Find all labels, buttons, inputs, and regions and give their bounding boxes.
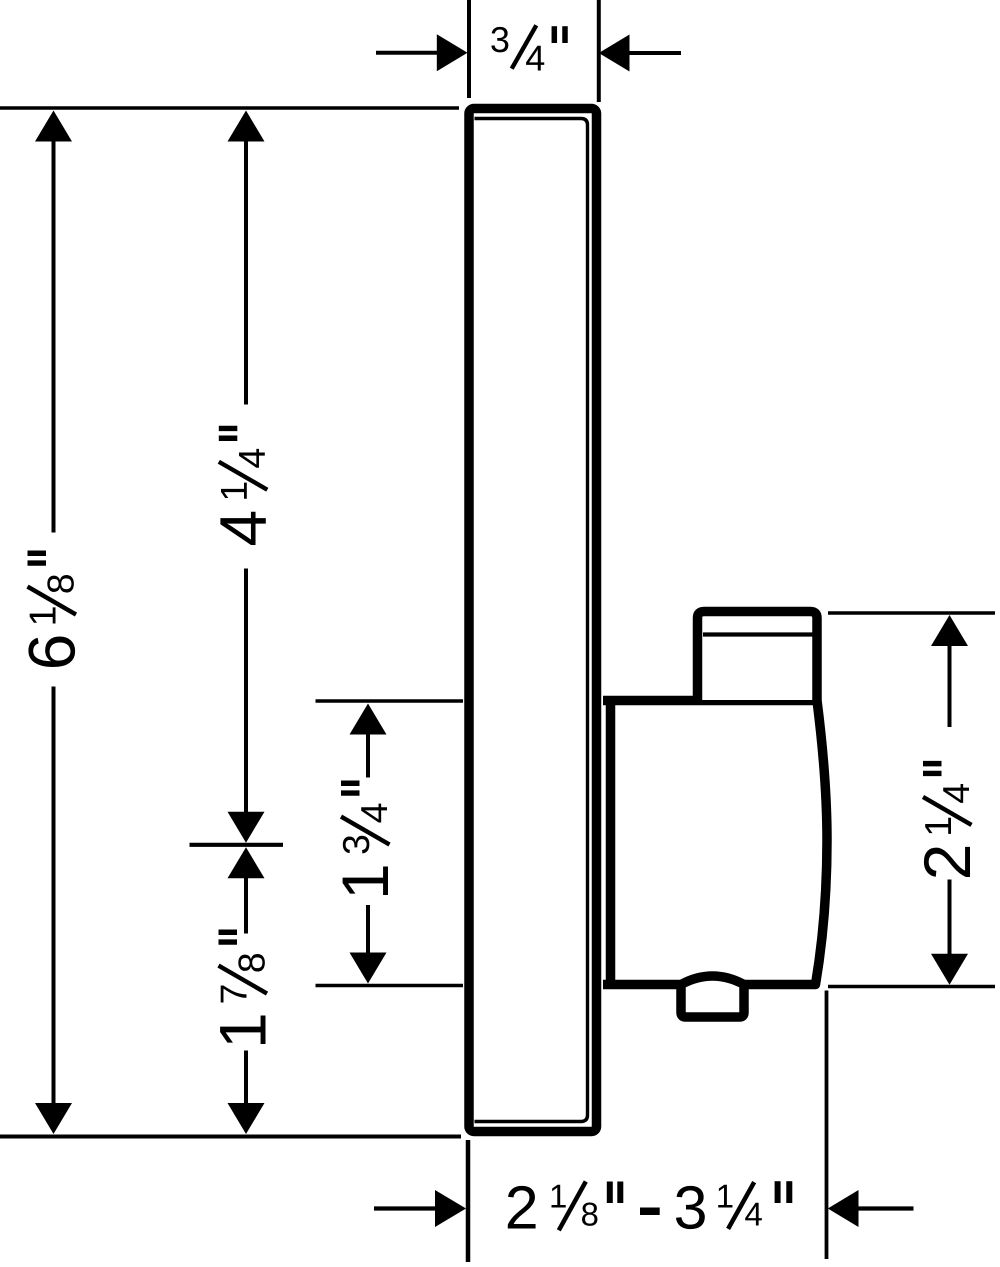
1 7/8 dimension line lower segment [244,1051,248,1105]
dimension label 2 1/8" - 3 1/4" [508,1181,790,1230]
valve body [603,701,827,985]
wall plate outline [469,109,597,1132]
1 7/8 dimension line upper segment [244,878,248,934]
handle top flange [698,612,818,701]
handle top flange inner line [703,632,814,636]
dimension label 2 1/4" [923,764,972,877]
top extension line (left, plate top level) [0,106,459,110]
bottom dimension left arrow [435,1190,466,1227]
1 3/4 dimension line lower segment [366,905,370,953]
4 1/4 dimension bottom arrow [228,812,265,843]
2 1/4 dimension line lower segment [948,880,952,955]
dimension label 1 7/8" [219,932,268,1044]
bottom extension line (plate bottom level) [0,1135,461,1139]
6 1/8 dimension line upper segment [52,141,56,533]
1 7/8 dimension top arrow [228,847,265,878]
4 1/4 dimension top arrow [228,111,265,142]
2 1/4 top extension line [828,611,995,615]
extension line left of 3/4 dimension [467,0,471,98]
2 1/4 dimension line upper segment [948,646,952,728]
extension line right of 3/4 dimension [597,0,601,102]
1 3/4 bottom extension line (valve body bottom level) [316,984,464,988]
bottom dimension left tail [374,1206,436,1210]
3/4 dimension left arrow [437,34,468,71]
wall plate inner face line [475,119,588,1122]
3/4 dimension left tail [376,51,438,55]
dimension label 3/4" [491,25,565,70]
1 3/4 dimension bottom arrow [350,953,387,984]
4 1/4 dimension line upper segment [244,141,248,405]
valve bottom tab [681,976,744,1017]
tick line between 4 1/4 and 1 7/8 dimensions [190,843,284,847]
valve body left edge [606,698,616,982]
4 1/4 dimension line lower segment [244,569,248,813]
bottom dimension right arrow [828,1190,859,1227]
6 1/8 dimension bottom arrow [35,1103,72,1134]
2 1/4 dimension top arrow [931,615,968,646]
dimension label 1 3/4" [341,783,390,895]
1 3/4 dimension top arrow [350,704,387,735]
bottom dimension right tail [859,1206,914,1210]
bottom-right extension line [825,991,829,1260]
3/4 dimension right arrow [599,35,630,72]
2 1/4 bottom extension line [828,985,995,989]
dimension label 4 1/4" [219,428,268,545]
dimension label 6 1/8" [28,553,77,667]
6 1/8 dimension top arrow [35,111,72,142]
1 3/4 top extension line (valve body top level) [316,699,464,703]
1 7/8 dimension bottom arrow [228,1103,265,1134]
6 1/8 dimension line lower segment [52,687,56,1105]
1 3/4 dimension line upper segment [366,734,370,778]
bottom-left extension line [466,1140,471,1262]
3/4 dimension right tail [630,51,682,55]
2 1/4 dimension bottom arrow [931,954,968,985]
